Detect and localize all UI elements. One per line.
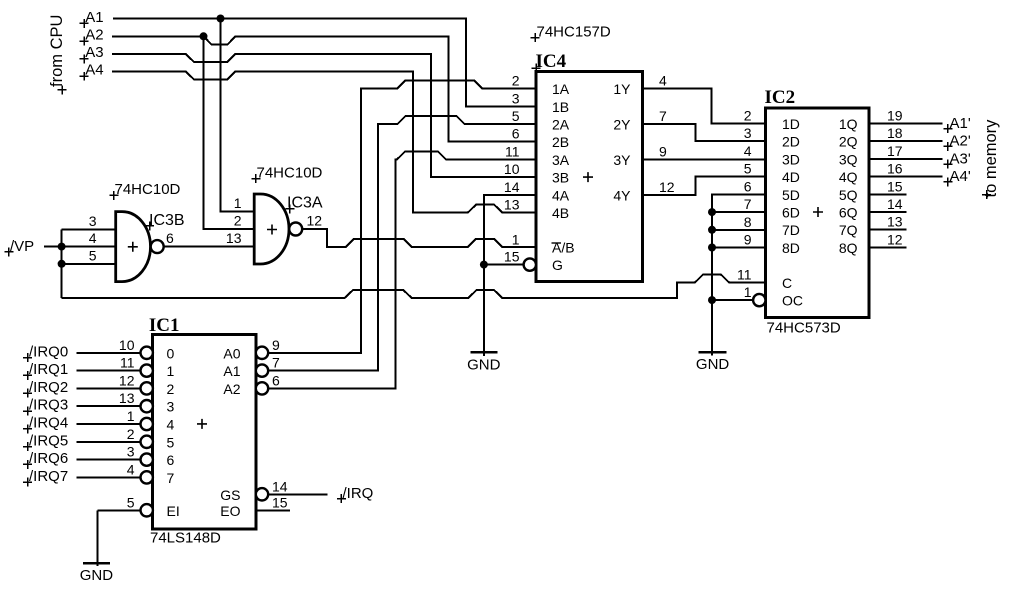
origin cross label /IRQ7 (23, 478, 32, 487)
wire net A2 branch down to IC3A pin 2 (204, 36, 255, 229)
svg-text:1: 1 (127, 408, 135, 424)
wire IC1 GS pin 14 to /IRQ label (268, 493, 328, 495)
origin cross label /IRQ (337, 494, 346, 503)
junction dot GND tap to IC4 G (480, 261, 488, 269)
svg-text:2: 2 (127, 426, 135, 442)
svg-text:74HC573D: 74HC573D (767, 320, 841, 337)
svg-text:/IRQ5: /IRQ5 (29, 432, 68, 449)
svg-text:4: 4 (659, 73, 667, 89)
wire net A2 from CPU (jog under A1 branch, turn down to IC4 pin 6 2B) (112, 36, 536, 141)
svg-text:GND: GND (467, 357, 501, 374)
IC4 pin numbers left (504, 73, 520, 265)
wire IC3B pin 4 stub (62, 246, 116, 248)
svg-text:7Q: 7Q (839, 222, 858, 238)
nand gate IC3B 74HC10D body (116, 212, 151, 282)
svg-text:/IRQ1: /IRQ1 (29, 361, 68, 378)
wire GND net tap to IC4 pin 15 G bubble (484, 264, 525, 266)
IC4 A/B overline (552, 242, 562, 244)
svg-text:74HC157D: 74HC157D (537, 24, 611, 41)
svg-text:4Q: 4Q (839, 169, 858, 185)
stub IC2 8Q pin 12 (869, 246, 907, 248)
svg-text:6: 6 (166, 230, 174, 246)
svg-text:2: 2 (167, 381, 175, 397)
IC2 pin numbers left (737, 108, 752, 301)
svg-text:to memory: to memory (982, 119, 1000, 198)
svg-text:14: 14 (504, 179, 520, 195)
stub IC2 5Q pin 15 (869, 193, 907, 195)
svg-text:7: 7 (744, 196, 752, 212)
svg-text:OC: OC (782, 293, 803, 309)
origin cross label to memory (982, 190, 991, 199)
svg-text:3: 3 (512, 90, 520, 106)
wire /IRQ2 to IC1 pin 12 (77, 387, 141, 389)
svg-text:8D: 8D (782, 240, 800, 256)
wire IC3B output pin 6 to IC3A pin 13 (164, 246, 255, 248)
svg-text:IC2: IC2 (765, 87, 796, 108)
svg-text:8Q: 8Q (839, 240, 858, 256)
svg-text:2B: 2B (552, 134, 569, 150)
origin cross label A2' (943, 142, 952, 151)
svg-text:6: 6 (512, 126, 520, 142)
svg-text:9: 9 (272, 337, 280, 353)
svg-text:IC3B: IC3B (149, 212, 185, 229)
svg-text:6Q: 6Q (839, 205, 858, 221)
svg-text:A1': A1' (950, 115, 971, 132)
origin cross label /IRQ1 (23, 371, 32, 380)
svg-text:3: 3 (127, 444, 135, 460)
svg-text:5: 5 (127, 494, 135, 510)
IC2 pin names right column (839, 116, 858, 256)
plus mark IC4 center (583, 172, 593, 182)
origin cross value 74HC157D (531, 33, 540, 42)
svg-text:2D: 2D (782, 134, 800, 150)
stub IC1 EO pin 15 (256, 509, 290, 511)
svg-text:A3': A3' (950, 150, 971, 167)
svg-text:3: 3 (167, 399, 175, 415)
wire IC2 pin 8 7D stub to GND vertical (712, 229, 766, 231)
svg-text:IC1: IC1 (149, 315, 180, 336)
svg-text:A2: A2 (223, 381, 240, 397)
wire IC2 4Q pin 16 to A4' (869, 176, 943, 178)
svg-text:13: 13 (226, 230, 242, 246)
svg-text:6: 6 (167, 452, 175, 468)
wire IC2 pin 9 8D stub to GND vertical (712, 247, 766, 249)
origin cross label A1' (943, 124, 952, 133)
svg-text:2: 2 (744, 108, 752, 124)
svg-text:18: 18 (887, 125, 903, 141)
svg-text:6: 6 (744, 178, 752, 194)
IC3A pin numbers (226, 195, 242, 246)
svg-text:/IRQ6: /IRQ6 (29, 450, 68, 467)
origin cross value 74HC10D (IC3B) (109, 191, 118, 200)
svg-text:12: 12 (307, 212, 323, 228)
plus mark IC3A center (267, 225, 277, 235)
wire net A3 from CPU (jog, turn down to IC4 pin 10 3B) (112, 54, 536, 177)
junction dot /VP at IC3B pin 5 (58, 260, 66, 268)
stub IC2 7Q pin 13 (869, 229, 907, 231)
wire IC2 pin 7 6D stub to GND vertical (712, 211, 766, 213)
svg-text:12: 12 (659, 179, 675, 195)
IC2 74HC573D latch body (766, 108, 870, 318)
origin cross label A1 (80, 19, 89, 28)
junction dot A2/IC3A branch (200, 32, 208, 40)
svg-text:7: 7 (167, 470, 175, 486)
IC1 74LS148D priority encoder body (153, 335, 256, 529)
svg-text:2: 2 (512, 73, 520, 89)
svg-text:2: 2 (234, 213, 242, 229)
svg-text:74LS148D: 74LS148D (150, 530, 221, 547)
svg-text:7D: 7D (782, 222, 800, 238)
svg-text:9: 9 (659, 143, 667, 159)
svg-text:2Q: 2Q (839, 134, 858, 150)
svg-text:13: 13 (887, 214, 903, 230)
svg-text:5: 5 (512, 108, 520, 124)
svg-text:12: 12 (119, 372, 135, 388)
svg-text:15: 15 (887, 178, 903, 194)
IC2 pin names left column (782, 116, 803, 309)
origin cross label /IRQ0 (23, 353, 32, 362)
svg-text:1A: 1A (552, 81, 570, 97)
svg-text:3Q: 3Q (839, 151, 858, 167)
origin cross label A4' (943, 177, 952, 186)
svg-text:/IRQ4: /IRQ4 (29, 415, 68, 432)
origin cross label /VP (4, 247, 13, 256)
svg-text:/IRQ3: /IRQ3 (29, 397, 68, 414)
origin cross designator IC3A (285, 204, 294, 213)
svg-text:G: G (552, 257, 563, 273)
wire IC4 1Y pin 4 to IC2 1D pin 2 (643, 89, 766, 124)
svg-text:1B: 1B (552, 99, 569, 115)
stub IC2 6Q pin 14 (869, 211, 907, 213)
svg-text:/IRQ2: /IRQ2 (29, 379, 68, 396)
svg-text:A1: A1 (223, 363, 240, 379)
wire IC4 2Y pin 7 to IC2 2D pin 3 (643, 124, 766, 141)
wire IC2 1Q pin 19 to A1' (869, 123, 943, 125)
origin cross label /IRQ6 (23, 460, 32, 469)
wire /IRQ4 to IC1 pin 1 (77, 423, 141, 425)
svg-text:4D: 4D (782, 169, 800, 185)
svg-text:4Y: 4Y (613, 187, 631, 203)
svg-text:A4': A4' (950, 168, 971, 185)
wire IC4 3Y pin 9 to IC2 3D pin 4 (643, 158, 766, 160)
svg-text:7: 7 (659, 108, 667, 124)
svg-text:14: 14 (887, 196, 903, 212)
IC3A output bubble (289, 223, 302, 236)
svg-text:1: 1 (234, 195, 242, 211)
plus mark IC3B center (128, 242, 138, 252)
junction dot GND at IC2 7D (708, 226, 716, 234)
svg-text:A/B: A/B (552, 239, 575, 255)
svg-text:5: 5 (744, 161, 752, 177)
svg-text:16: 16 (887, 161, 903, 177)
origin cross label A3' (943, 160, 952, 169)
svg-text:3: 3 (744, 125, 752, 141)
wire net A4 from CPU (jog, turn down, hop, to IC4 pin 13 4B) (112, 71, 536, 212)
plus mark IC1 center (197, 419, 207, 429)
IC1 pin numbers left (119, 337, 135, 511)
wire IC1 A0 output up to IC4 pin 2 1A with hop (268, 81, 536, 353)
svg-text:4B: 4B (552, 205, 569, 221)
wire IC1 EI pin 5 to ground (98, 510, 141, 566)
svg-text:11: 11 (505, 143, 520, 159)
svg-text:11: 11 (120, 355, 135, 371)
svg-text:0: 0 (167, 345, 175, 361)
origin cross designator IC3B (145, 221, 154, 230)
ground symbol at IC1 EI (83, 562, 110, 565)
wire /IRQ6 to IC1 pin 3 (77, 459, 141, 461)
wire IC3B pin 5 stub (62, 263, 116, 265)
origin cross label A4 (80, 72, 89, 81)
origin cross label A2 (80, 37, 89, 46)
svg-text:1: 1 (167, 363, 175, 379)
wire IC4 4Y pin 12 to IC2 4D pin 5 (643, 177, 766, 195)
svg-text:11: 11 (737, 266, 752, 282)
svg-text:5: 5 (89, 247, 97, 263)
svg-text:3: 3 (89, 213, 97, 229)
svg-text:1Q: 1Q (839, 116, 858, 132)
wire IC2 2Q pin 18 to A2' (869, 140, 943, 142)
svg-text:12: 12 (887, 231, 903, 247)
origin cross designator IC4 (532, 64, 541, 73)
wire GND net: IC4 pin 14 4A down to ground (484, 195, 536, 356)
svg-text:74HC10D: 74HC10D (257, 165, 323, 182)
junction dot GND at IC2 8D (708, 244, 716, 252)
origin cross label /IRQ5 (23, 442, 32, 451)
wire net /VP long run to IC2 pin 11 C with hops (62, 275, 766, 298)
svg-text:1D: 1D (782, 116, 800, 132)
IC1 pin numbers right (272, 337, 288, 511)
wire /IRQ5 to IC1 pin 2 (77, 441, 141, 443)
svg-text:9: 9 (744, 232, 752, 248)
wire IC3B pin 3 stub (62, 228, 116, 230)
wire IC2 3Q pin 17 to A3' (869, 158, 943, 160)
junction dot /VP at IC3B pin 4 (58, 243, 66, 251)
svg-text:4: 4 (167, 417, 175, 433)
IC2 pin 1 OC inversion bubble (753, 294, 765, 306)
origin cross label A3 (80, 54, 89, 63)
wire IC3A output pin 12 to IC4 pin 1 A/B with hops (302, 229, 536, 247)
nand gate IC3A 74HC10D body (254, 194, 289, 264)
svg-text:3A: 3A (552, 152, 570, 168)
svg-text:C: C (782, 275, 792, 291)
wire net /VP label stub (44, 246, 62, 248)
wire IC1 A1 output up to IC4 pin 5 2A with hop (268, 116, 536, 371)
junction dot GND at IC2 OC (708, 296, 716, 304)
junction dot GND at IC2 6D (708, 208, 716, 216)
svg-text:14: 14 (272, 478, 288, 494)
svg-text:3D: 3D (782, 151, 800, 167)
svg-text:1Y: 1Y (613, 81, 631, 97)
origin cross label from CPU (58, 85, 67, 94)
plus mark IC2 center (813, 207, 823, 217)
svg-text:4: 4 (89, 230, 97, 246)
origin cross label /IRQ3 (23, 407, 32, 416)
wire IC2 pin 1 OC stub to GND vertical (712, 299, 754, 301)
svg-text:74HC10D: 74HC10D (115, 181, 181, 198)
svg-text:15: 15 (504, 249, 520, 265)
svg-text:15: 15 (272, 494, 288, 510)
IC4 pin numbers right (659, 73, 675, 195)
svg-text:4: 4 (127, 461, 135, 477)
svg-text:/VP: /VP (10, 238, 34, 255)
svg-text:13: 13 (119, 390, 135, 406)
svg-text:1: 1 (744, 284, 752, 300)
svg-text:6D: 6D (782, 205, 800, 221)
svg-text:A0: A0 (223, 345, 240, 361)
wire /IRQ0 to IC1 pin 10 (77, 352, 141, 354)
svg-text:7: 7 (272, 355, 280, 371)
svg-text:EI: EI (167, 503, 180, 519)
svg-text:5Q: 5Q (839, 187, 858, 203)
IC1 pin names left column (167, 345, 180, 519)
svg-text:4A: 4A (552, 187, 570, 203)
svg-text:10: 10 (119, 337, 135, 353)
wire GND net 2: IC2 pin 6 5D down to ground (712, 195, 766, 356)
IC1 input bubbles pins 10,11,12,13,1,2,3,4,5 (141, 347, 153, 517)
svg-text:6: 6 (272, 372, 280, 388)
svg-text:5D: 5D (782, 187, 800, 203)
svg-text:A2': A2' (950, 133, 971, 150)
svg-text:GND: GND (80, 567, 114, 584)
svg-text:4: 4 (744, 143, 752, 159)
wire /IRQ1 to IC1 pin 11 (77, 370, 141, 372)
IC3B pin numbers (89, 213, 97, 263)
IC4 74HC157D multiplexer body (536, 72, 643, 282)
svg-text:3B: 3B (552, 170, 569, 186)
svg-text:1: 1 (512, 231, 520, 247)
origin cross label /IRQ2 (23, 389, 32, 398)
svg-text:19: 19 (887, 108, 903, 124)
IC4 pin names right column (613, 81, 631, 203)
svg-text:3Y: 3Y (613, 152, 631, 168)
ground symbol at IC2 5D-8D/OC net (699, 351, 727, 354)
wire net A1 branch down to IC3A pin 1 (221, 19, 255, 212)
wire net /VP vertical joining IC3B pins 3,4,5 (61, 229, 63, 297)
wire IC1 A2 output up to IC4 pin 11 3A with hop (268, 152, 536, 389)
IC1 pin names right column (220, 345, 240, 519)
svg-text:GND: GND (696, 356, 730, 373)
IC4 pin 15 G inversion bubble (524, 258, 536, 270)
svg-text:13: 13 (504, 197, 520, 213)
svg-text:GS: GS (220, 487, 240, 503)
wire /IRQ3 to IC1 pin 13 (77, 405, 141, 407)
svg-text:2A: 2A (552, 117, 570, 133)
svg-text:2Y: 2Y (613, 117, 631, 133)
IC4 pin names left column (552, 81, 575, 273)
origin cross value 74HC10D (IC3A) (251, 174, 260, 183)
wire /IRQ7 to IC1 pin 4 (77, 476, 141, 478)
IC3B output bubble (151, 240, 164, 253)
IC1 output bubbles pins 9,7,6,14 (256, 347, 268, 501)
svg-text:EO: EO (220, 503, 240, 519)
origin cross label /IRQ4 (23, 424, 32, 433)
svg-text:8: 8 (744, 214, 752, 230)
svg-text:5: 5 (167, 434, 175, 450)
wire net A1 from CPU (horizontal run, turn down to IC4 pin 3 1B) (113, 19, 536, 107)
ground symbol at IC4 4A/G net (470, 351, 497, 354)
svg-text:/IRQ0: /IRQ0 (29, 343, 68, 360)
svg-text:/IRQ7: /IRQ7 (29, 468, 68, 485)
junction dot A1/IC3A branch (217, 15, 225, 23)
svg-text:from CPU: from CPU (48, 15, 66, 87)
IC2 pin numbers right (887, 108, 903, 248)
svg-text:17: 17 (887, 143, 903, 159)
svg-text:10: 10 (504, 161, 520, 177)
svg-text:/IRQ: /IRQ (343, 485, 374, 502)
